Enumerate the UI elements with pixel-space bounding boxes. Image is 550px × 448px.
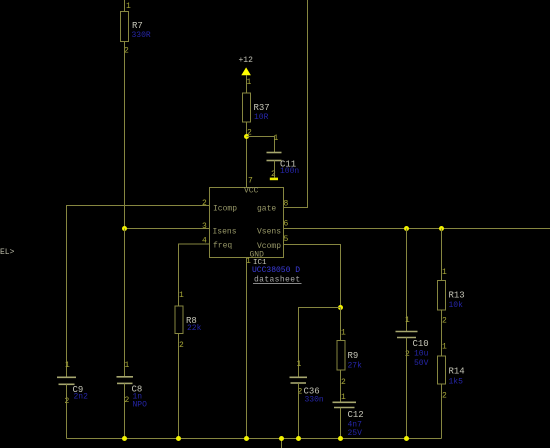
junction at R37/C11 xyxy=(244,134,249,139)
svg-text:50V: 50V xyxy=(414,359,429,368)
wire Icomp to C9 xyxy=(67,206,210,378)
svg-text:1: 1 xyxy=(341,329,346,338)
svg-text:VCC: VCC xyxy=(244,187,259,196)
svg-text:R14: R14 xyxy=(449,367,465,377)
svg-text:7: 7 xyxy=(248,177,253,186)
junction Vsens/C10 xyxy=(404,226,409,231)
svg-text:27k: 27k xyxy=(348,362,363,371)
capacitor C11 xyxy=(267,153,297,170)
svg-text:10u: 10u xyxy=(414,350,429,359)
wire ground stub down xyxy=(281,439,283,448)
svg-text:1: 1 xyxy=(341,393,346,402)
svg-text:25V: 25V xyxy=(348,429,363,438)
junction bus R8 xyxy=(176,436,181,441)
wire ground bus xyxy=(67,438,442,440)
datasheet link xyxy=(253,276,302,285)
svg-text:+12: +12 xyxy=(239,56,254,65)
wire junction to C11 xyxy=(247,137,275,153)
svg-text:Isens: Isens xyxy=(213,228,237,237)
svg-text:2: 2 xyxy=(405,350,410,359)
svg-text:R13: R13 xyxy=(449,291,465,301)
svg-text:3: 3 xyxy=(202,222,207,231)
wire C8 to bus xyxy=(124,383,126,438)
resistor R14 xyxy=(438,356,465,384)
wire R14 to bus xyxy=(441,384,443,439)
svg-text:2n2: 2n2 xyxy=(74,393,89,402)
svg-text:330n: 330n xyxy=(305,396,324,405)
svg-text:2: 2 xyxy=(442,392,447,401)
junction bus GND pin xyxy=(244,436,249,441)
svg-text:C10: C10 xyxy=(413,339,429,349)
svg-text:UCC38050 D: UCC38050 D xyxy=(252,266,300,275)
wire Vcomp to R9 junction xyxy=(284,245,341,308)
svg-text:1: 1 xyxy=(442,343,447,352)
svg-text:5: 5 xyxy=(284,235,289,244)
wire C36 to bus xyxy=(298,383,300,439)
svg-text:1: 1 xyxy=(179,291,184,300)
wire C11 to ground xyxy=(274,161,276,178)
wire R7 bottom to Isens junction xyxy=(124,42,126,229)
svg-text:10k: 10k xyxy=(449,301,464,310)
ground bar below C11 xyxy=(270,178,278,181)
svg-text:1: 1 xyxy=(442,268,447,277)
wire junction to R9 xyxy=(340,308,342,341)
svg-text:1k5: 1k5 xyxy=(449,378,464,387)
resistor R7 xyxy=(121,12,143,42)
wire junction to C8 xyxy=(124,229,126,377)
svg-text:100n: 100n xyxy=(280,167,299,176)
wire R9 to C12 xyxy=(340,370,342,402)
capacitor C9 xyxy=(57,377,83,395)
svg-text:2: 2 xyxy=(341,378,346,387)
svg-text:1: 1 xyxy=(126,2,131,11)
svg-text:Icomp: Icomp xyxy=(213,205,237,214)
svg-text:6: 6 xyxy=(284,220,289,229)
svg-text:1: 1 xyxy=(405,316,410,325)
svg-text:1: 1 xyxy=(297,360,302,369)
junction Vcomp/R9/C36 xyxy=(338,305,343,310)
svg-text:R37: R37 xyxy=(254,103,270,113)
wire R13 to R14 xyxy=(441,310,443,356)
svg-text:1: 1 xyxy=(247,78,252,87)
wire C10 from Vsens xyxy=(406,229,408,332)
junction bus C12 xyxy=(338,436,343,441)
junction bus C36 xyxy=(296,436,301,441)
capacitor C36 xyxy=(290,377,320,396)
svg-text:22k: 22k xyxy=(187,324,202,333)
wire Vsens to right edge xyxy=(284,228,550,230)
svg-text:freq: freq xyxy=(213,242,232,251)
svg-text:2: 2 xyxy=(125,396,130,405)
IC IC1 body xyxy=(210,188,284,258)
capacitor C10 xyxy=(396,332,429,350)
wire gate up to top edge xyxy=(284,0,308,208)
junction Vsens/R13 xyxy=(439,226,444,231)
wire R8 to bus xyxy=(178,334,180,439)
svg-text:R7: R7 xyxy=(132,21,143,31)
wire R7 top feed xyxy=(124,0,126,12)
junction bus C10 xyxy=(404,436,409,441)
wire IC GND pin to bus xyxy=(246,258,248,439)
svg-text:330R: 330R xyxy=(132,31,151,40)
svg-text:Vsens: Vsens xyxy=(257,228,281,237)
svg-text:1: 1 xyxy=(65,361,70,370)
svg-text:C12: C12 xyxy=(348,410,364,420)
resistor R37 xyxy=(243,93,270,122)
svg-text:R9: R9 xyxy=(348,351,359,361)
svg-text:1: 1 xyxy=(125,361,130,370)
wire +12 to R37 xyxy=(246,75,248,93)
svg-text:NPO: NPO xyxy=(133,401,148,410)
svg-text:2: 2 xyxy=(179,341,184,350)
svg-text:2: 2 xyxy=(202,199,207,208)
capacitor C12 xyxy=(333,402,364,420)
wire C9 to bus xyxy=(66,384,68,438)
svg-text:2: 2 xyxy=(442,317,447,326)
svg-text:gate: gate xyxy=(257,205,276,214)
junction bus ground stub xyxy=(279,436,284,441)
capacitor C8 xyxy=(117,377,143,395)
wire R13 from Vsens xyxy=(441,229,443,281)
junction bus C8 xyxy=(122,436,127,441)
svg-text:EL>: EL> xyxy=(0,248,15,257)
resistor R13 xyxy=(438,281,465,311)
wire C12 to bus xyxy=(340,408,342,439)
wire C10 to bus xyxy=(406,338,408,439)
svg-text:10R: 10R xyxy=(254,113,269,122)
resistor R9 xyxy=(337,341,358,371)
wire R37 to VCC pin 7 xyxy=(246,122,248,188)
svg-text:Vcomp: Vcomp xyxy=(257,242,281,251)
wire junction to C36 xyxy=(299,308,341,378)
wire freq to R8 xyxy=(179,244,210,306)
resistor R8 xyxy=(175,306,197,334)
power +12 xyxy=(239,56,254,75)
svg-text:1: 1 xyxy=(274,134,279,143)
wire Isens from IC xyxy=(125,228,210,230)
junction R7/C8/Isens xyxy=(122,226,127,231)
